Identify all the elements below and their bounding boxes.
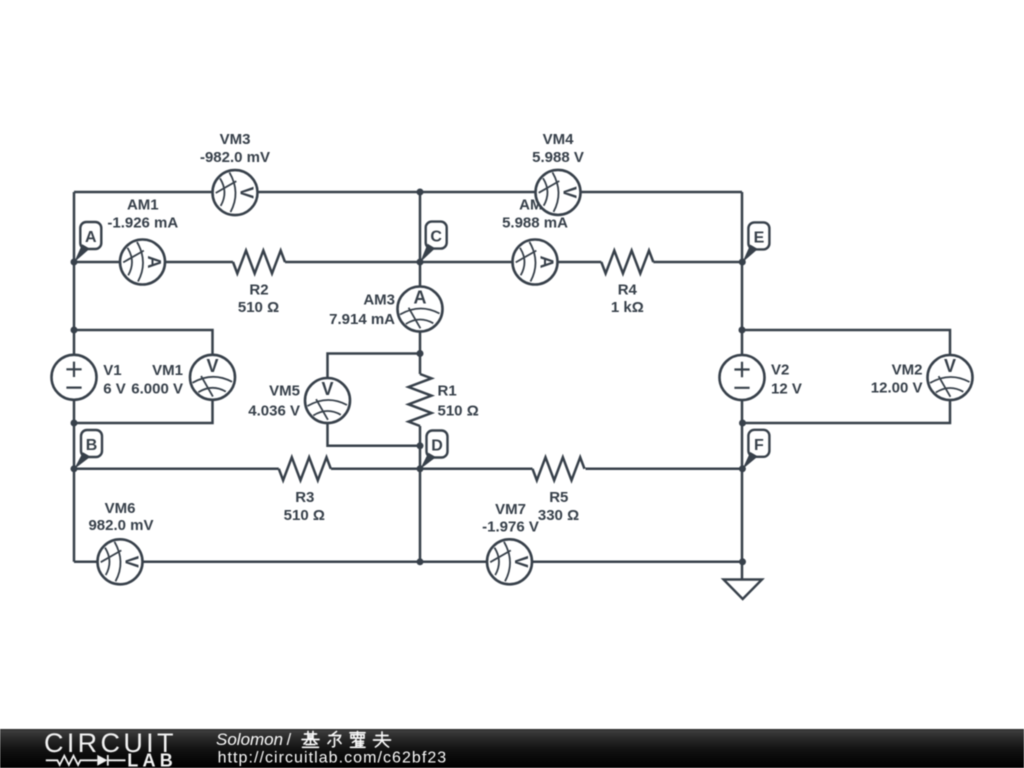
svg-text:/: / <box>287 731 292 749</box>
svg-text:5.988 mA: 5.988 mA <box>502 214 568 231</box>
svg-text:B: B <box>86 437 98 454</box>
svg-text:VM1: VM1 <box>152 362 183 379</box>
svg-text:12 V: 12 V <box>771 380 802 397</box>
svg-text:6.000 V: 6.000 V <box>131 381 183 398</box>
svg-text:510 Ω: 510 Ω <box>284 507 325 524</box>
svg-text:V: V <box>511 556 531 568</box>
svg-text:A: A <box>144 256 164 269</box>
svg-text:-1.926 mA: -1.926 mA <box>107 214 178 231</box>
svg-text:R1: R1 <box>438 383 457 400</box>
svg-text:R2: R2 <box>249 282 268 299</box>
svg-text:F: F <box>754 437 764 454</box>
svg-text:V2: V2 <box>771 362 789 379</box>
svg-text:VM4: VM4 <box>543 131 575 148</box>
svg-text:R5: R5 <box>549 489 568 506</box>
svg-text:VM5: VM5 <box>269 382 300 399</box>
svg-text:LAB: LAB <box>127 750 173 768</box>
svg-text:7.914 mA: 7.914 mA <box>329 311 395 328</box>
svg-text:VM7: VM7 <box>495 501 526 518</box>
svg-text:510 Ω: 510 Ω <box>238 299 279 316</box>
svg-text:-1.976 V: -1.976 V <box>482 519 539 536</box>
svg-text:VM3: VM3 <box>220 131 251 148</box>
svg-text:V: V <box>560 186 580 198</box>
svg-text:330 Ω: 330 Ω <box>538 507 579 524</box>
svg-text:V: V <box>321 379 333 399</box>
svg-text:AM3: AM3 <box>363 292 395 309</box>
svg-text:4.036 V: 4.036 V <box>248 403 300 420</box>
svg-text:VM2: VM2 <box>892 362 923 379</box>
svg-text:982.0 mV: 982.0 mV <box>88 517 153 534</box>
svg-text:A: A <box>414 288 427 308</box>
svg-text:V: V <box>944 356 956 376</box>
svg-text:V: V <box>206 356 218 376</box>
svg-text:V: V <box>122 556 142 568</box>
svg-text:R4: R4 <box>618 282 638 299</box>
svg-text:1 kΩ: 1 kΩ <box>611 299 644 316</box>
svg-text:AM1: AM1 <box>127 197 159 214</box>
svg-text:5.988 V: 5.988 V <box>532 149 584 166</box>
svg-text:V: V <box>237 187 257 199</box>
svg-text:510 Ω: 510 Ω <box>438 403 479 420</box>
svg-text:VM6: VM6 <box>105 500 136 517</box>
svg-text:6 V: 6 V <box>103 381 126 398</box>
svg-text:E: E <box>754 229 765 246</box>
svg-text:R3: R3 <box>295 489 314 506</box>
svg-text:12.00 V: 12.00 V <box>871 380 923 397</box>
svg-text:-982.0 mV: -982.0 mV <box>200 149 270 166</box>
svg-text:V1: V1 <box>103 362 121 379</box>
svg-text:Solomon: Solomon <box>216 730 283 749</box>
svg-text:http://circuitlab.com/c62bf23: http://circuitlab.com/c62bf23 <box>218 750 448 767</box>
svg-text:A: A <box>537 256 557 269</box>
svg-text:D: D <box>431 438 443 455</box>
svg-text:A: A <box>85 229 97 246</box>
svg-text:C: C <box>430 229 442 246</box>
